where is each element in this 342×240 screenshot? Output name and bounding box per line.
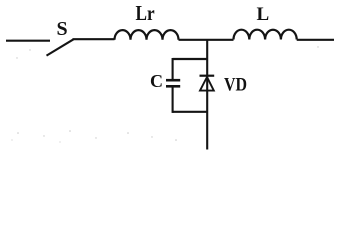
svg-text:VD: VD — [224, 73, 247, 95]
svg-text:Lr: Lr — [136, 3, 156, 26]
svg-text:S: S — [57, 18, 68, 40]
svg-text:L: L — [257, 4, 270, 25]
svg-text:C: C — [150, 71, 163, 91]
